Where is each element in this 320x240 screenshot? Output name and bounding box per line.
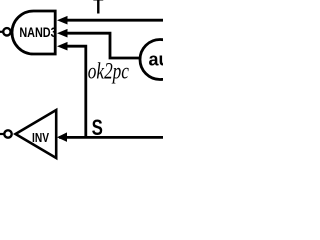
svg-text:NAND3: NAND3 xyxy=(19,25,56,41)
svg-text:S: S xyxy=(92,116,103,141)
svg-text:auto: auto xyxy=(149,50,164,70)
svg-text:INV: INV xyxy=(32,131,49,145)
svg-text:T: T xyxy=(93,0,103,19)
svg-text:ok2pc: ok2pc xyxy=(88,59,129,84)
